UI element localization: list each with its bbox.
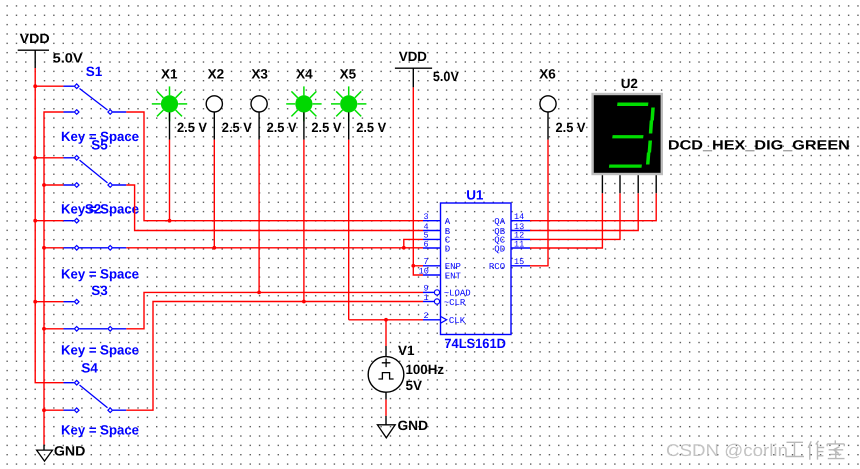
- svg-text:V1: V1: [398, 343, 415, 358]
- display lead 3: [637, 175, 639, 193]
- wire X4 lead: [303, 140, 305, 302]
- svg-text:3: 3: [424, 212, 429, 222]
- wire X6 lead to RCO: [530, 140, 548, 266]
- svg-text:2.5 V: 2.5 V: [556, 120, 586, 135]
- display lead 1: [601, 175, 603, 193]
- svg-text:VDD: VDD: [399, 49, 427, 64]
- svg-text:X5: X5: [340, 67, 357, 82]
- svg-text:CSDN @corlin: CSDN @corlin: [666, 441, 788, 460]
- svg-text:QD: QD: [494, 244, 505, 254]
- wire QD to display: [530, 193, 602, 248]
- pin 3 stub A: [423, 212, 451, 227]
- pin 14 stub QA: [494, 212, 530, 227]
- wire VDD bus: [35, 68, 63, 383]
- wire VDD bus to S2 top throw: [35, 220, 63, 222]
- wire X2 lead: [213, 140, 215, 248]
- wire S4 common to U1 pin 1 CLR: [126, 302, 423, 411]
- pin 15 stub RCO: [489, 257, 530, 272]
- wire VDD bus to S1 top throw: [35, 85, 63, 87]
- clock source V1: [368, 343, 444, 400]
- wire VDD bus to S3 top throw: [35, 301, 63, 303]
- op-amp U1 74LS161D counter: [419, 188, 530, 352]
- ground GND (left bottom): [37, 444, 86, 462]
- svg-text:5.0V: 5.0V: [433, 69, 459, 84]
- wire QB to display: [530, 193, 638, 230]
- switch S1: [61, 64, 139, 144]
- probe X3 (off): [251, 67, 297, 140]
- svg-text:2.5 V: 2.5 V: [267, 120, 297, 135]
- ground GND (under V1): [377, 416, 428, 438]
- svg-text:QA: QA: [494, 217, 505, 227]
- svg-text:A: A: [445, 217, 451, 227]
- pin 9 stub LOAD: [423, 284, 471, 299]
- svg-text:2.5 V: 2.5 V: [177, 120, 207, 135]
- svg-text:2.5 V: 2.5 V: [311, 120, 341, 135]
- junction dots on GND bus: [42, 183, 46, 412]
- svg-text:X2: X2: [208, 67, 225, 82]
- pin 13 stub QB: [494, 222, 530, 237]
- node X4-CLR junction: [302, 300, 306, 304]
- svg-text:11: 11: [514, 239, 524, 249]
- svg-text:S2: S2: [85, 201, 102, 216]
- wire GND bus to S3 bottom throw: [44, 328, 64, 330]
- svg-text:6: 6: [424, 239, 429, 249]
- power VDD (left): [18, 31, 83, 68]
- wire GND bus to S5 bottom throw: [44, 184, 64, 186]
- svg-text:U2: U2: [621, 76, 638, 91]
- pin 10 stub ENT: [419, 266, 462, 281]
- junction dots on VDD bus: [33, 84, 37, 303]
- segment c: [648, 141, 652, 153]
- svg-text:Key = Space: Key = Space: [61, 423, 139, 438]
- wire X3 lead: [258, 140, 260, 293]
- svg-text:5.0V: 5.0V: [53, 50, 83, 65]
- svg-text:10: 10: [419, 266, 429, 276]
- svg-text:GND: GND: [398, 418, 429, 433]
- node X3-LOAD junction: [257, 291, 261, 295]
- wire V1 to GND: [385, 400, 387, 416]
- svg-text:ENT: ENT: [445, 271, 462, 281]
- seven-segment display U2: [591, 76, 850, 193]
- probe X2 (off): [206, 67, 252, 140]
- svg-text:D: D: [445, 244, 450, 254]
- svg-text:5V: 5V: [406, 378, 423, 393]
- svg-text:S4: S4: [81, 361, 98, 376]
- wire S3 common to U1 pin 9 LOAD: [126, 292, 423, 328]
- pin 12 stub QC: [494, 231, 530, 246]
- wire GND bus: [44, 112, 64, 445]
- pin 4 stub B: [423, 222, 451, 237]
- svg-text:15: 15: [514, 257, 524, 267]
- node VDD-ENP junction: [411, 264, 415, 268]
- svg-text:S3: S3: [91, 283, 108, 298]
- segment d: [609, 165, 642, 168]
- segment b: [650, 108, 654, 121]
- wire S1 common to U1 pin 3 A: [126, 112, 423, 221]
- pin 6 stub D: [423, 239, 450, 254]
- svg-text:X6: X6: [539, 67, 556, 82]
- display lead 4: [655, 175, 657, 193]
- wire S5 common to U1 pin 4 B: [126, 185, 423, 231]
- pin 1 stub CLR: [423, 293, 466, 308]
- node X1-A junction: [168, 219, 172, 223]
- segment a: [617, 103, 648, 107]
- svg-text:GND: GND: [54, 444, 86, 459]
- svg-text:X3: X3: [251, 67, 268, 82]
- svg-text:DCD_HEX_DIG_GREEN: DCD_HEX_DIG_GREEN: [668, 137, 850, 152]
- wire V1 to CLK line: [385, 320, 387, 346]
- wire GND bus to S2 bottom throw: [44, 247, 64, 249]
- svg-text:2.5 V: 2.5 V: [222, 120, 252, 135]
- svg-text:~CLR: ~CLR: [444, 298, 466, 308]
- svg-text:CLK: CLK: [449, 316, 466, 326]
- wire S2 common to U1 pin 6 D: [126, 247, 423, 249]
- pin 7 stub ENP: [423, 257, 461, 272]
- switch S2: [61, 201, 139, 281]
- pin 5 stub C: [423, 231, 451, 246]
- svg-text:14: 14: [514, 212, 524, 222]
- svg-text:2: 2: [424, 311, 429, 321]
- pin 11 stub QD: [494, 239, 530, 254]
- wire VDD bus to S5 top throw: [35, 157, 63, 159]
- svg-text:Key = Space: Key = Space: [61, 343, 139, 358]
- probe X6 (off): [539, 67, 585, 140]
- watermark: [666, 440, 845, 460]
- switch S5: [61, 137, 139, 216]
- wire CLK line X5 to U1 pin 2: [349, 319, 423, 321]
- wire VDD mid to ENP ENT: [413, 87, 423, 275]
- svg-text:1: 1: [424, 293, 429, 303]
- svg-text:100Hz: 100Hz: [406, 362, 445, 377]
- svg-text:S5: S5: [91, 137, 108, 152]
- switch S4: [61, 361, 139, 438]
- wire jog pin 5 C to D line: [404, 239, 423, 247]
- svg-text:X1: X1: [161, 67, 178, 82]
- svg-text:S1: S1: [86, 64, 103, 79]
- probe X5 (lit): [331, 67, 386, 140]
- node X2-D junction: [212, 246, 216, 250]
- probe X1 (lit): [152, 67, 207, 140]
- svg-text:2.5 V: 2.5 V: [356, 120, 386, 135]
- segment g: [612, 135, 643, 138]
- wire GND bus to S4 bottom throw: [44, 409, 64, 411]
- power VDD (middle): [395, 49, 459, 88]
- svg-text:RCO: RCO: [489, 262, 505, 272]
- wire QA to display: [530, 193, 656, 221]
- svg-text:Key = Space: Key = Space: [61, 267, 139, 282]
- svg-text:X4: X4: [296, 67, 313, 82]
- wire X1 lead: [169, 140, 171, 221]
- probe X4 (lit): [286, 67, 341, 140]
- display lead 2: [619, 175, 621, 193]
- node C-jog junction: [402, 246, 406, 250]
- svg-text:74LS161D: 74LS161D: [444, 336, 506, 351]
- pin 2 stub CLK: [423, 311, 466, 326]
- svg-text:U1: U1: [466, 188, 484, 203]
- wire X5 lead: [348, 140, 350, 320]
- switch S3: [61, 283, 139, 358]
- svg-text:VDD: VDD: [20, 31, 50, 46]
- node V1-CLK junction: [384, 318, 388, 322]
- wire QC to display: [530, 193, 620, 239]
